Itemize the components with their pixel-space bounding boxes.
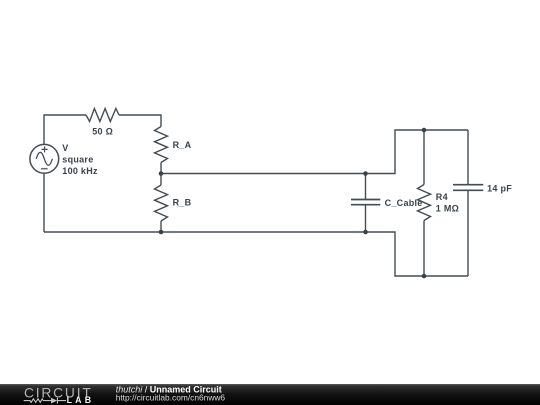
svg-text:1 MΩ: 1 MΩ bbox=[436, 204, 459, 214]
node at C_Cable bottom bbox=[363, 230, 368, 235]
svg-text:C_Cable: C_Cable bbox=[385, 198, 423, 208]
resistor R1 50Ω zigzag bbox=[86, 109, 119, 122]
resistor R_A zigzag bbox=[155, 127, 168, 163]
svg-text:R_A: R_A bbox=[173, 140, 192, 150]
wire C2 bottom lead bbox=[467, 191, 469, 276]
resistor R_B zigzag bbox=[155, 185, 168, 221]
svg-text:R_B: R_B bbox=[173, 198, 192, 208]
svg-text:LAB: LAB bbox=[67, 395, 95, 405]
node at R4 top bbox=[422, 128, 427, 133]
label V square 100 kHz bbox=[62, 143, 98, 176]
wire R4 bottom lead bbox=[423, 221, 425, 277]
svg-text:V: V bbox=[62, 143, 68, 153]
wire below R_B bbox=[160, 221, 162, 232]
capacitor C_Cable plates bbox=[351, 200, 380, 205]
node at R_A/R_B junction bbox=[159, 171, 164, 176]
svg-text:R4: R4 bbox=[436, 192, 448, 202]
svg-text:100 kHz: 100 kHz bbox=[62, 166, 98, 176]
svg-text:50 Ω: 50 Ω bbox=[92, 127, 113, 137]
wire C2 top lead bbox=[467, 130, 469, 184]
svg-text:14 pF: 14 pF bbox=[487, 184, 512, 194]
resistor R4 zigzag bbox=[418, 185, 431, 221]
CircuitLab logo resistor+diode bbox=[24, 398, 66, 404]
node at R_B bottom bbox=[159, 230, 164, 235]
capacitor C2 14pF plates bbox=[453, 185, 483, 191]
svg-text:http://circuitlab.com/cn6nww6: http://circuitlab.com/cn6nww6 bbox=[116, 393, 226, 403]
wire between R_A and R_B bbox=[160, 163, 162, 186]
wire bottom rail to lower-right rail bbox=[44, 232, 468, 276]
footer bar bbox=[0, 384, 540, 405]
wire top-right from R1 to R_A bbox=[119, 115, 161, 127]
wire C_Cable bottom lead bbox=[365, 205, 367, 232]
wire top-left from source to R1 bbox=[44, 115, 86, 144]
svg-text:square: square bbox=[62, 155, 93, 165]
wire middle rail to top-right rail bbox=[161, 130, 468, 174]
wire left below source bbox=[43, 173, 45, 232]
node at R4 bottom bbox=[422, 274, 427, 279]
wire C_Cable top lead bbox=[365, 174, 367, 200]
node at C_Cable top bbox=[363, 171, 368, 176]
wire R4 top lead bbox=[423, 130, 425, 185]
voltage source V1 bbox=[30, 144, 59, 173]
